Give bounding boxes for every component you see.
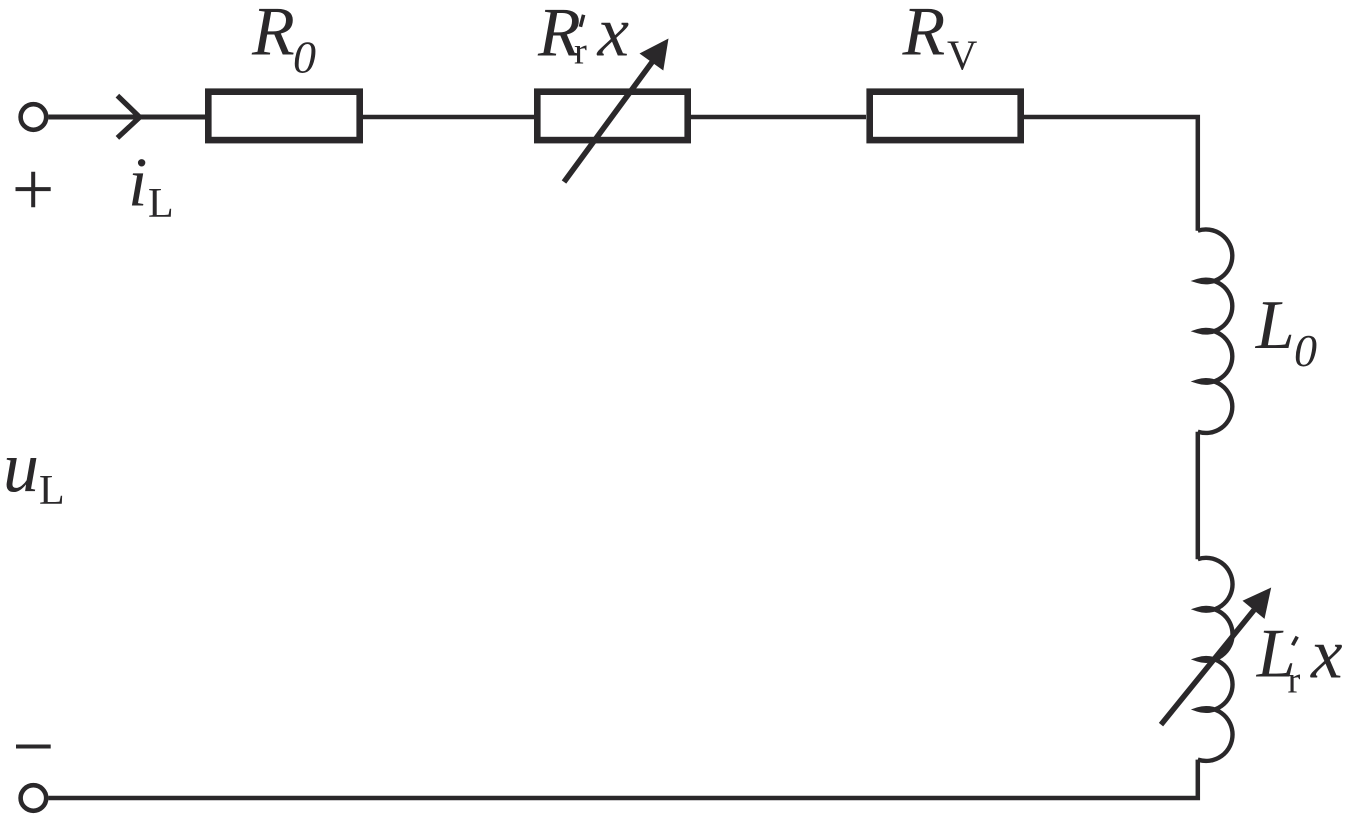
svg-text:R: R (251, 0, 295, 71)
terminal (output -) (21, 785, 47, 811)
inductor Lr'x (variable) (1198, 558, 1233, 761)
arrow through Lr'x (1161, 610, 1254, 725)
arrowhead of Rr'x arrow (640, 39, 669, 71)
wire between inductors (1196, 432, 1201, 560)
wire inductor to bottom (48, 760, 1198, 798)
terminal (input +) (21, 104, 47, 130)
inductor L0 (1198, 229, 1233, 433)
wire R0 to Rr (363, 115, 534, 120)
svg-text:0: 0 (1294, 325, 1317, 376)
plus sign (16, 172, 51, 208)
svg-text:0: 0 (293, 32, 316, 83)
wire Rr to RV (691, 115, 866, 120)
current arrow i_L (117, 96, 139, 138)
svg-text:u: u (3, 427, 39, 507)
arrowhead of Lr'x arrow (1243, 588, 1272, 619)
svg-text:V: V (947, 34, 977, 80)
resistor Rr'x (variable) (537, 92, 687, 140)
svg-text:L: L (39, 468, 65, 514)
wire RV to corner and down (1024, 117, 1198, 231)
minus sign (16, 745, 51, 749)
svg-text:x: x (597, 0, 630, 72)
wire input to R0 (48, 115, 205, 120)
svg-text:r: r (574, 30, 587, 72)
svg-text:L: L (1255, 287, 1295, 364)
svg-text:R: R (902, 0, 946, 71)
svg-text:r: r (1288, 659, 1301, 701)
resistor RV (870, 92, 1021, 140)
svg-text:L: L (148, 181, 174, 227)
svg-text:i: i (128, 145, 147, 222)
resistor R0 (208, 92, 359, 140)
arrow through Rr'x (564, 62, 653, 183)
svg-text:x: x (1310, 616, 1343, 694)
